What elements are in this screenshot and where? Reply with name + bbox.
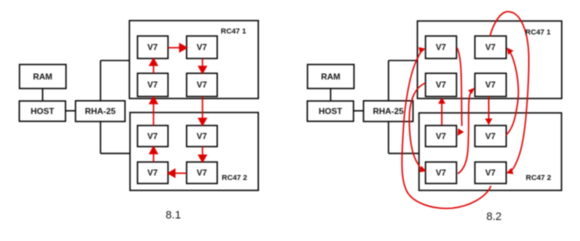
svg-text:V7: V7: [436, 131, 447, 141]
wire RAM to HOST right: [330, 89, 332, 102]
box V7 row2 left: [138, 73, 169, 96]
box V7 row2 right (fig 8.2): [475, 73, 506, 96]
svg-text:RC47 1: RC47 1: [525, 28, 550, 37]
svg-text:V7: V7: [436, 42, 447, 52]
arrow r2R to r3R (down, straight): [488, 97, 490, 119]
svg-text:RC47 1: RC47 1: [221, 27, 246, 36]
box V7 row3 left (fig 8.2): [426, 126, 457, 147]
arrowhead r3L to r2L tip: [438, 97, 445, 104]
box V7 row3 right: [187, 126, 218, 147]
curved arrow delta: r4L right to r2R left: [458, 91, 471, 173]
box V7 row3 left: [138, 126, 169, 147]
svg-text:8.2: 8.2: [486, 211, 501, 223]
arrow V7 r2R to r3R (down): [202, 97, 204, 119]
svg-text:RHA-25: RHA-25: [85, 106, 116, 116]
curved arrow zeta: r2L left to r4L left: [409, 83, 425, 169]
box V7 row1 left (fig 8.2): [426, 36, 457, 59]
arrow V7 r2L to r1L (up): [153, 65, 155, 73]
svg-text:V7: V7: [197, 80, 208, 90]
arrowhead alpha tip (into r4R right): [506, 168, 513, 174]
svg-text:V7: V7: [485, 131, 496, 141]
box V7 row4 right (fig 8.2): [475, 162, 506, 184]
box HOST right: [307, 101, 353, 121]
svg-text:V7: V7: [485, 168, 496, 178]
svg-text:8.1: 8.1: [166, 210, 181, 222]
svg-text:RHA-25: RHA-25: [373, 106, 404, 116]
curved arrow alpha: r1R top over apex down to r4R right: [490, 12, 529, 171]
curved arrow beta: r3R right up to r1R right: [506, 53, 519, 136]
arrowhead r2R to r3R tip: [485, 119, 492, 126]
curved arrow epsilon: r1L right down to r3 area: [457, 48, 462, 126]
arrow V7 r4R to r4L (left): [174, 172, 186, 174]
svg-text:V7: V7: [147, 80, 158, 90]
wire bus bottom stub to RC47 2: [101, 152, 131, 154]
svg-text:V7: V7: [147, 168, 158, 178]
box V7 row1 left: [138, 36, 169, 59]
box RC47 2 right: [419, 113, 562, 190]
svg-text:V7: V7: [147, 42, 158, 52]
wire bus vertical right: [388, 61, 390, 154]
box RAM right: [308, 65, 355, 89]
svg-text:V7: V7: [197, 42, 208, 52]
arrowhead beta tip (into r1R right): [507, 48, 514, 55]
svg-text:V7: V7: [485, 42, 496, 52]
wire bus top stub to RC47 1: [101, 60, 130, 62]
box V7 row2 left (fig 8.2): [426, 73, 457, 96]
svg-text:V7: V7: [436, 80, 447, 90]
wire RAM to HOST: [42, 89, 44, 102]
box RHA-25: [76, 101, 126, 122]
svg-text:RAM: RAM: [321, 71, 340, 81]
arrow r3L to r2L (up, straight): [441, 103, 443, 125]
svg-text:V7: V7: [147, 131, 158, 141]
box V7 row1 right: [187, 36, 218, 59]
box RAM: [20, 65, 67, 89]
arrow V7 r4L to r3L (up): [153, 153, 155, 162]
box RC47 2: [130, 113, 258, 191]
box RC47 1: [129, 21, 258, 99]
wire HOST to RHA-25 right: [354, 110, 364, 112]
wire bus bottom stub right: [389, 152, 420, 154]
svg-text:RC47 2: RC47 2: [222, 173, 247, 182]
box V7 row4 left: [138, 162, 169, 184]
box V7 row1 right (fig 8.2): [475, 36, 506, 59]
arrow V7 r1L to r1R: [168, 47, 180, 49]
svg-text:V7: V7: [197, 168, 208, 178]
wire HOST to RHA-25: [66, 110, 76, 112]
svg-text:RAM: RAM: [33, 71, 52, 81]
svg-text:HOST: HOST: [319, 106, 343, 116]
box RHA-25 right: [364, 101, 414, 122]
wire bus vertical (RHA-25 to RC47 boxes): [100, 61, 102, 154]
box V7 row4 right: [187, 162, 218, 184]
svg-text:RC47 2: RC47 2: [526, 173, 551, 182]
arrowhead delta tip (into r2R left): [468, 88, 475, 94]
arrow V7 r3L to r2L (up): [153, 103, 155, 125]
box HOST: [19, 101, 65, 121]
svg-text:V7: V7: [436, 168, 447, 178]
box V7 row4 left (fig 8.2): [426, 162, 457, 184]
box RC47 1 right: [417, 21, 561, 99]
svg-text:HOST: HOST: [31, 106, 55, 116]
box V7 row2 right: [187, 73, 218, 96]
arrowhead epsilon tip: [458, 128, 464, 135]
wire bus top stub right: [389, 60, 418, 62]
arrowhead gamma tip (into r1L left): [418, 47, 425, 53]
arrowhead zeta tip (into r4L left): [419, 166, 426, 172]
arrow V7 r3R to r4R (down): [202, 147, 204, 156]
box V7 row3 right (fig 8.2): [475, 126, 506, 147]
svg-text:V7: V7: [485, 80, 496, 90]
svg-text:V7: V7: [197, 131, 208, 141]
arrow V7 r1R to r2R (down): [202, 59, 204, 67]
curved arrow gamma: r4R bottom to r1L left: [402, 50, 491, 209]
